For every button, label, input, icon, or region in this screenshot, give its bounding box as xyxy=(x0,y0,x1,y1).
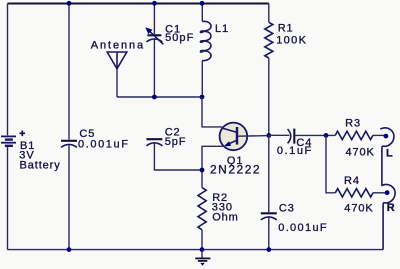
svg-text:50pF: 50pF xyxy=(165,32,194,44)
svg-text:R4: R4 xyxy=(344,175,360,187)
resistor R3 xyxy=(335,131,373,139)
wire: left battery line lower xyxy=(7,147,9,250)
wire: C4 to split junction xyxy=(294,134,335,136)
resistor R2 xyxy=(198,188,206,230)
junction dot emitter / C2 xyxy=(200,168,205,173)
wire: R3 to L jack xyxy=(373,134,384,136)
svg-text:L1: L1 xyxy=(215,23,229,35)
junction dot mid rail / L1 xyxy=(200,95,205,100)
wire: C5 branch lower xyxy=(68,145,70,250)
svg-text:5pF: 5pF xyxy=(165,136,187,148)
junction dot mid rail / C1-C2 xyxy=(152,95,157,100)
wire: L1 branch upper xyxy=(201,4,203,22)
wire: C3 branch lower xyxy=(268,217,270,249)
svg-text:0.001uF: 0.001uF xyxy=(78,138,130,150)
wire: R1 branch upper xyxy=(268,4,270,23)
junction dot bottom rail / C3 xyxy=(266,247,271,252)
wire: R2 lower xyxy=(201,230,203,250)
wire: antenna lead xyxy=(116,69,118,97)
junction dot top rail / L1 xyxy=(200,1,205,6)
junction dot top rail / C1 xyxy=(152,1,157,6)
earphone jack R xyxy=(382,184,396,249)
svg-text:C3: C3 xyxy=(279,202,295,214)
wire: base lead to junction xyxy=(238,135,269,138)
svg-text:Ohm: Ohm xyxy=(212,212,239,224)
wire: left battery line upper xyxy=(7,4,9,136)
inductor L1 xyxy=(200,21,211,60)
wire: split down to R4 xyxy=(326,135,335,192)
capacitor C1 (variable) xyxy=(147,34,161,36)
resistor R4 xyxy=(335,189,373,197)
junction dot bottom rail / R2 xyxy=(200,247,205,252)
ground xyxy=(201,250,203,259)
battery plus sign xyxy=(20,131,26,137)
svg-text:R1: R1 xyxy=(278,23,294,35)
svg-text:0.1uF: 0.1uF xyxy=(277,145,313,157)
wire: R4 to R jack xyxy=(373,192,385,194)
wire: collector elbow xyxy=(202,97,222,127)
svg-text:Battery: Battery xyxy=(20,160,61,172)
earphone jack L xyxy=(380,128,394,186)
wire: emitter elbow down to R2 xyxy=(202,146,225,187)
battery B1 xyxy=(1,136,16,145)
svg-text:L: L xyxy=(386,148,394,160)
junction dot top rail / C5 xyxy=(67,1,72,6)
svg-text:470K: 470K xyxy=(344,203,373,215)
wire: C1 branch upper xyxy=(153,4,155,35)
wire: L1 branch lower xyxy=(201,61,203,97)
capacitor C4 xyxy=(288,129,291,143)
svg-text:0.001uF: 0.001uF xyxy=(278,222,328,234)
antenna xyxy=(107,52,127,69)
capacitor C5 xyxy=(61,140,77,142)
junction dot base/R1/C4/C3 xyxy=(266,133,271,138)
arrow of C1 xyxy=(149,30,164,44)
svg-text:Antenna: Antenna xyxy=(91,39,145,51)
svg-text:R: R xyxy=(387,202,396,214)
wire: R1 lower to base junction xyxy=(268,58,270,135)
wire: C5 branch upper xyxy=(68,4,70,140)
capacitor C3 xyxy=(261,212,277,214)
wire: mid rail (antenna to L1) xyxy=(117,96,202,98)
junction dot R3/R4 split xyxy=(324,133,329,138)
svg-text:100K: 100K xyxy=(276,34,307,46)
emitter arrow of Q1 xyxy=(224,141,231,146)
svg-text:2N2222: 2N2222 xyxy=(210,162,261,176)
wire: C1 branch lower xyxy=(153,39,155,97)
junction dot bottom rail / C5 xyxy=(67,247,72,252)
wire: junction to C4 xyxy=(269,134,290,136)
transistor Q1 xyxy=(220,123,248,151)
svg-text:R3: R3 xyxy=(345,117,361,129)
wire: top supply rail xyxy=(8,3,269,5)
svg-text:470K: 470K xyxy=(346,146,375,158)
wire: C2 bottom link to emitter xyxy=(154,143,202,170)
wire: C3 branch upper xyxy=(268,135,270,212)
resistor R1 xyxy=(265,22,273,58)
capacitor C2 xyxy=(146,138,162,140)
wire: bottom ground rail xyxy=(8,249,384,251)
